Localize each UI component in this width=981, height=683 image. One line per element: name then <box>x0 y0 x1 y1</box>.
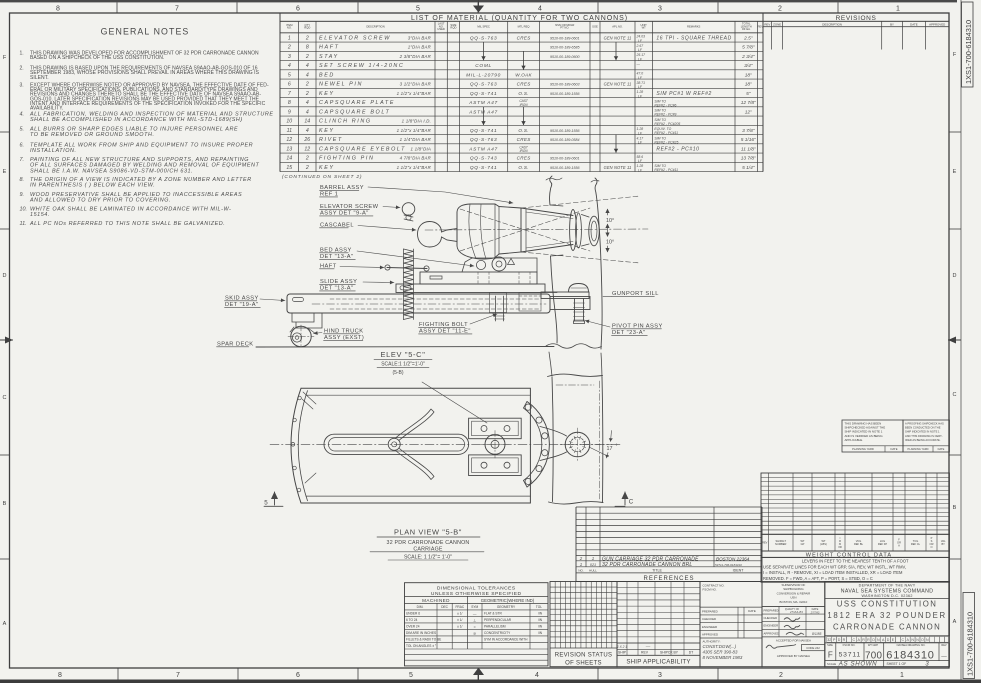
list of material ditto arrows <box>483 42 485 60</box>
svg-text:HAFT: HAFT <box>319 45 339 51</box>
svg-text:4: 4 <box>306 128 309 134</box>
svg-text:FRAC: FRAC <box>455 605 464 609</box>
svg-text:SOE: SOE <box>592 24 598 28</box>
svg-text:1: 1 <box>288 35 291 41</box>
svg-text:CRES: CRES <box>517 137 532 142</box>
gunport sill structure <box>541 292 589 299</box>
svg-text:32: 32 <box>827 638 831 642</box>
svg-text:9510-00-189-6585: 9510-00-189-6585 <box>550 46 580 50</box>
svg-text:PREPARED: PREPARED <box>764 609 779 613</box>
svg-text:AND THIS DRAWING IS CERT-: AND THIS DRAWING IS CERT- <box>905 434 943 438</box>
svg-text:REV: REV <box>764 23 770 27</box>
svg-text:53711: 53711 <box>839 652 861 659</box>
svg-text:REF#2 - PC#25: REF#2 - PC#25 <box>654 140 678 144</box>
svg-text:STAY: STAY <box>319 54 339 60</box>
fighting bolt <box>490 293 507 313</box>
svg-text:CRES: CRES <box>517 35 532 40</box>
svg-text:18": 18" <box>745 82 752 88</box>
svg-text:DIMENSIONAL TOLERANCES: DIMENSIONAL TOLERANCES <box>437 585 516 591</box>
svg-text:13 7/8": 13 7/8" <box>741 156 756 162</box>
hind truck bracket <box>292 313 322 328</box>
svg-text:N: N <box>916 638 919 642</box>
svg-text:AND ALLOWED TO DRY PRIOR TO CO: AND ALLOWED TO DRY PRIOR TO COVERING. <box>29 198 171 204</box>
svg-text:1 1/2"x 1/4"BAR: 1 1/2"x 1/4"BAR <box>397 91 432 96</box>
svg-text:UNDER 6: UNDER 6 <box>406 612 420 616</box>
svg-text:BOSTON, MA. 02210: BOSTON, MA. 02210 <box>780 600 808 604</box>
svg-text:AUTHORITY:: AUTHORITY: <box>703 640 721 644</box>
svg-text:2: 2 <box>579 556 583 561</box>
pivot arm <box>540 427 567 461</box>
svg-text:C: C <box>629 499 634 506</box>
svg-text:18": 18" <box>745 72 752 78</box>
svg-text:1XS1-700-6184310: 1XS1-700-6184310 <box>966 612 975 676</box>
svg-text:MIL-L-20790: MIL-L-20790 <box>466 72 501 78</box>
svg-text:DEC: DEC <box>441 605 448 609</box>
svg-text:DIM.: DIM. <box>417 605 424 609</box>
svg-text:2 3/4": 2 3/4" <box>741 54 755 60</box>
svg-text:8: 8 <box>306 45 309 51</box>
svg-text:REMOVED. F = FWD, A = AFT, P =: REMOVED. F = FWD, A = AFT, P = PORT, S =… <box>763 576 873 581</box>
svg-text:N: N <box>877 638 880 642</box>
svg-text:PLAN VIEW "5-B": PLAN VIEW "5-B" <box>394 528 462 537</box>
svg-text:SYM IN ACCORDANCE WITH: SYM IN ACCORDANCE WITH <box>484 638 528 642</box>
svg-text:E: E <box>3 169 7 175</box>
svg-text:OF EA.: OF EA. <box>742 27 751 31</box>
svg-text:9510-00-189-0603: 9510-00-189-0603 <box>550 83 580 87</box>
svg-text:REV: REV <box>941 643 947 647</box>
svg-text:MIL SPEC: MIL SPEC <box>477 24 490 28</box>
svg-text:4: 4 <box>288 63 291 69</box>
svg-text:2: 2 <box>305 165 309 171</box>
svg-text:FSCM NO.: FSCM NO. <box>843 643 856 647</box>
svg-text:4: 4 <box>306 109 309 115</box>
trunnion and capsquare <box>476 260 485 269</box>
svg-text:GEN NOTE 11: GEN NOTE 11 <box>604 35 632 40</box>
svg-text:5 7/8": 5 7/8" <box>742 45 755 51</box>
svg-text:PARALLELISM: PARALLELISM <box>484 625 506 629</box>
hull elevation outer <box>550 176 552 205</box>
plan sill dash-dot lines <box>599 381 601 499</box>
svg-text:9: 9 <box>288 109 291 115</box>
svg-text:2 3/8"DIA BAR: 2 3/8"DIA BAR <box>399 54 432 59</box>
svg-text:—: — <box>645 644 651 649</box>
svg-text:1 1/8"DIA I.D.: 1 1/8"DIA I.D. <box>402 119 431 124</box>
svg-text:BEEN CONDUCTED ON THE: BEEN CONDUCTED ON THE <box>905 426 941 430</box>
left centering arrow <box>0 339 13 341</box>
svg-text:CLINCH RING: CLINCH RING <box>319 119 372 125</box>
svg-text:7: 7 <box>176 672 180 679</box>
svg-text:/IN: /IN <box>538 618 543 622</box>
elevation view group <box>217 176 663 378</box>
svg-text:REF FP: REF FP <box>878 542 887 546</box>
svg-text:INSTALLATION.: INSTALLATION. <box>30 148 77 154</box>
svg-text:15: 15 <box>286 165 292 171</box>
svg-text:DATE: DATE <box>938 447 945 451</box>
svg-text:SHIPCK BY: SHIPCK BY <box>660 651 679 655</box>
svg-text:—: — <box>473 612 477 616</box>
svg-text:DESCRIPTION: DESCRIPTION <box>366 24 384 28</box>
svg-text:°: ° <box>616 444 618 450</box>
svg-text:A PROOFING SHIPCHECK HAS: A PROOFING SHIPCHECK HAS <box>905 421 944 425</box>
svg-text:SCALE: 1 1/2"= 1'-0": SCALE: 1 1/2"= 1'-0" <box>404 554 452 560</box>
svg-text:C: C <box>852 638 855 642</box>
svg-text:N: N <box>926 638 929 642</box>
hull gunport edges <box>550 205 563 206</box>
svg-text:—: — <box>941 653 947 659</box>
svg-text:1 1/2"x 1/4"BAR: 1 1/2"x 1/4"BAR <box>397 165 432 170</box>
svg-text:CRES: CRES <box>517 82 532 87</box>
svg-text:ACCEPTED FOR NAVSEA: ACCEPTED FOR NAVSEA <box>776 638 811 642</box>
svg-text:=: = <box>474 625 476 629</box>
capsquare top <box>469 418 522 439</box>
svg-text:C: C <box>953 392 957 398</box>
svg-text:KEY: KEY <box>319 91 335 97</box>
svg-text:1 X 2 1: 1 X 2 1 <box>617 645 627 649</box>
right zone ticks <box>949 131 961 133</box>
svg-text:4.: 4. <box>20 111 25 117</box>
svg-text:ASTM A47: ASTM A47 <box>468 100 498 106</box>
svg-text:NUMBER: NUMBER <box>775 542 786 546</box>
svg-text:BOSTON 22364: BOSTON 22364 <box>716 556 750 561</box>
svg-text:CONCENTRICITY: CONCENTRICITY <box>484 631 511 635</box>
svg-text:2: 2 <box>779 672 783 679</box>
svg-text:R: R <box>843 638 846 642</box>
svg-text:TITLE: TITLE <box>652 569 662 573</box>
svg-text:ELEV "5-C": ELEV "5-C" <box>380 350 425 359</box>
svg-text:DESCRIPTION: DESCRIPTION <box>822 23 842 27</box>
svg-text:D: D <box>838 638 841 642</box>
svg-text:FILLETS & RADII TO BE: FILLETS & RADII TO BE <box>406 638 441 642</box>
svg-text:B: B <box>953 505 957 511</box>
scale sheet row <box>825 660 950 662</box>
svg-text:PT NO.: PT NO. <box>560 26 569 30</box>
pivot pin <box>574 299 576 322</box>
svg-text:D: D <box>887 638 890 642</box>
svg-text:TOL: TOL <box>536 605 542 609</box>
general notes text <box>20 50 274 227</box>
svg-text:± 1/: ± 1/ <box>457 618 462 622</box>
svg-text:GEOMETRY: GEOMETRY <box>497 605 516 609</box>
svg-text:9.: 9. <box>20 192 25 198</box>
plan center slot <box>324 434 469 454</box>
svg-text:2: 2 <box>287 45 291 51</box>
code box <box>801 645 824 651</box>
svg-text:3: 3 <box>288 54 291 60</box>
section marker C <box>624 492 626 505</box>
svg-text:16 TPI - SQUARE THREAD: 16 TPI - SQUARE THREAD <box>656 35 731 41</box>
haft handle <box>387 268 427 269</box>
svg-text:O: O <box>872 638 875 642</box>
svg-text:CAPSQUARE EYEBOLT: CAPSQUARE EYEBOLT <box>319 146 406 152</box>
svg-text:CRES: CRES <box>517 156 532 161</box>
svg-text:APPROVED: APPROVED <box>929 23 945 27</box>
svg-text:TO BE REMOVED OR GROUND SMOOTH: TO BE REMOVED OR GROUND SMOOTH. <box>30 132 155 138</box>
svg-text:WT: WT <box>642 26 647 30</box>
svg-text:3"DIA BAR: 3"DIA BAR <box>408 35 432 40</box>
svg-text:REF#2 - PC#10: REF#2 - PC#10 <box>656 146 699 152</box>
svg-text:QQ-S-741: QQ-S-741 <box>470 165 497 171</box>
svg-text:7.: 7. <box>20 157 25 163</box>
svg-text:11.: 11. <box>20 221 27 227</box>
svg-text:C: C <box>3 395 7 401</box>
svg-text:IDENT: IDENT <box>733 569 745 573</box>
svg-text:FSCM NO.: FSCM NO. <box>703 588 717 592</box>
svg-text:ZONE: ZONE <box>773 23 781 27</box>
elevator screw threaded column <box>404 249 414 320</box>
svg-text:E: E <box>953 169 957 175</box>
svg-text:O.S.: O.S. <box>518 128 528 133</box>
svg-text:QQ-S-763: QQ-S-763 <box>470 82 497 88</box>
svg-text:CONST:DGW(...): CONST:DGW(...) <box>703 644 737 649</box>
svg-text:DT: DT <box>689 651 694 655</box>
svg-text:5: 5 <box>416 5 420 12</box>
svg-text:DEPARTMENT OF THE NAVY: DEPARTMENT OF THE NAVY <box>859 583 916 587</box>
plan sill plank right edge <box>601 378 604 503</box>
svg-text:8: 8 <box>56 5 60 12</box>
skid right extension <box>550 297 590 310</box>
svg-text:DATE: DATE <box>891 447 898 451</box>
svg-text:FLAT & STR: FLAT & STR <box>484 612 502 616</box>
svg-text:15154.: 15154. <box>30 212 50 218</box>
plan bow bolts <box>298 396 302 400</box>
svg-text:ENGINEER: ENGINEER <box>764 624 779 628</box>
svg-text:O.S.: O.S. <box>518 91 528 96</box>
svg-text:LEVERS IN FEET TO THE NEAREST: LEVERS IN FEET TO THE NEAREST TENTH OF A… <box>802 559 909 564</box>
svg-text:6.: 6. <box>20 142 25 148</box>
svg-text:KEY: KEY <box>319 165 335 171</box>
svg-text:2: 2 <box>305 35 309 41</box>
svg-text:SIZE: SIZE <box>827 643 833 647</box>
svg-text:14: 14 <box>286 156 292 162</box>
weight control banner <box>761 551 949 557</box>
hull elevation inner <box>595 178 602 349</box>
svg-text:NEWEL PIN: NEWEL PIN <box>319 82 363 88</box>
svg-text:26: 26 <box>303 137 310 143</box>
svg-text:9510-00-189-0601: 9510-00-189-0601 <box>550 36 580 40</box>
svg-text:SEPTEMBER 1983, WHOSE PROVISIO: SEPTEMBER 1983, WHOSE PROVISIONS SHALL P… <box>30 70 260 76</box>
top zone band dividers <box>116 2 118 13</box>
top-right drawing number stamp <box>962 2 974 87</box>
svg-text:SHALL BE ACCOMPLISHED IN ACCOR: SHALL BE ACCOMPLISHED IN ACCORDANCE WITH… <box>30 117 243 123</box>
svg-text:TOL ON ANGLES ± °: TOL ON ANGLES ± ° <box>406 644 437 648</box>
svg-text:1: 1 <box>896 5 900 12</box>
svg-text:ELEVATOR SCREW: ELEVATOR SCREW <box>319 35 391 41</box>
plan sill plank bottom wave <box>549 502 604 504</box>
levers note text <box>761 557 949 582</box>
svg-text:QQ-S-763: QQ-S-763 <box>470 35 497 41</box>
hull below gunport <box>549 352 552 376</box>
svg-text:CODE 242: CODE 242 <box>806 646 820 650</box>
plan centerline <box>270 443 622 445</box>
svg-text:WASHINGTON D.C. 02362: WASHINGTON D.C. 02362 <box>862 594 913 598</box>
svg-text:REF#2 - PC#11: REF#2 - PC#11 <box>654 168 678 172</box>
svg-text:ALL PC NOs REFERRED TO THIS N: ALL PC NOs REFERRED TO THIS NOTE SHALL B… <box>29 221 225 227</box>
bottom page edge strip <box>0 680 981 683</box>
hind truck wheel <box>291 326 311 346</box>
contract and approvals block <box>700 582 762 667</box>
size fscm row headers <box>825 642 950 644</box>
svg-text:PREPARED: PREPARED <box>702 609 718 613</box>
svg-text:SILENT.: SILENT. <box>30 75 49 81</box>
weight control data block <box>761 473 949 582</box>
svg-text:3 7/8": 3 7/8" <box>742 128 755 134</box>
svg-text:CAPSQUARE BOLT: CAPSQUARE BOLT <box>319 109 390 115</box>
svg-text:NAVSEA DRAWING NO.: NAVSEA DRAWING NO. <box>897 643 926 647</box>
svg-text:REF CL: REF CL <box>911 542 921 546</box>
svg-text:6184310: 6184310 <box>886 650 934 662</box>
svg-text:SHALL BE I.A.W. NAVSEA S9086-V: SHALL BE I.A.W. NAVSEA S9086-VD-STM-000/… <box>30 168 193 174</box>
svg-text:N: N <box>911 638 914 642</box>
svg-text:QQ-S-743: QQ-S-743 <box>470 156 497 162</box>
svg-text:9510-00-189-0584: 9510-00-189-0584 <box>550 138 580 142</box>
svg-text:9510-00-189-1556: 9510-00-189-1556 <box>550 92 580 96</box>
svg-text:GEOMETRIC(WHERE IND): GEOMETRIC(WHERE IND) <box>481 598 535 603</box>
svg-text:REVISION STATUS: REVISION STATUS <box>555 653 613 659</box>
svg-text:NO.: NO. <box>287 26 292 30</box>
svg-text:9510-00-189-1556: 9510-00-189-1556 <box>550 129 580 133</box>
weight control header row <box>761 534 949 551</box>
bottom zone band dividers <box>117 668 119 680</box>
svg-text:12": 12" <box>745 109 752 115</box>
plan sill plank left edge <box>552 377 553 502</box>
svg-text:HULL: HULL <box>589 568 597 572</box>
svg-text:4305 SER 390-83: 4305 SER 390-83 <box>703 650 738 655</box>
svg-text:RIVET: RIVET <box>319 137 343 143</box>
svg-text:12: 12 <box>286 137 292 143</box>
svg-text:D: D <box>3 273 7 279</box>
svg-text:1 1/8"DIA: 1 1/8"DIA <box>411 146 431 151</box>
svg-text:4: 4 <box>535 672 539 679</box>
svg-text:53711-706-6184310: 53711-706-6184310 <box>715 563 742 567</box>
svg-text:3.: 3. <box>20 83 24 89</box>
svg-text:QQ-S-741: QQ-S-741 <box>470 128 497 134</box>
plan sill plank top wave <box>548 374 603 376</box>
svg-text:—: — <box>636 62 641 66</box>
svg-text:WHITE OAK SHALL BE LAMINATED I: WHITE OAK SHALL BE LAMINATED IN ACCORDAN… <box>30 206 231 212</box>
svg-text:(LBS): (LBS) <box>820 542 827 546</box>
svg-text:1 1/4"DIA BAR: 1 1/4"DIA BAR <box>400 137 432 142</box>
right centering arrow <box>948 339 961 341</box>
slide tier <box>396 284 545 293</box>
svg-text:11 1/8": 11 1/8" <box>741 146 756 152</box>
svg-text:IRON: IRON <box>520 149 529 153</box>
svg-text:XR: XR <box>838 545 842 549</box>
svg-text:A: A <box>3 621 7 627</box>
svg-text:ASTM A47: ASTM A47 <box>468 146 498 152</box>
svg-text:CARRONADE CANNON: CARRONADE CANNON <box>833 623 941 632</box>
svg-text:APL NO.: APL NO. <box>612 24 623 28</box>
svg-text:11: 11 <box>287 128 292 134</box>
muzzle face <box>582 215 590 247</box>
svg-text:REF#2 - PC#6: REF#2 - PC#6 <box>654 103 676 107</box>
svg-text:PLANNING YARD: PLANNING YARD <box>852 447 874 451</box>
svg-text:4 7/8"DIA BAR: 4 7/8"DIA BAR <box>400 156 432 161</box>
svg-text:2: 2 <box>305 54 309 60</box>
17 degree dimension <box>589 447 609 457</box>
list of material table <box>280 13 763 180</box>
svg-text:32 PDR CARRONADE CANNON: 32 PDR CARRONADE CANNON <box>387 540 470 546</box>
svg-text:REV: REV <box>757 24 763 28</box>
svg-text:KEY: KEY <box>319 128 335 134</box>
svg-text:D: D <box>953 273 957 279</box>
svg-text:(5-B): (5-B) <box>392 370 403 376</box>
svg-text:QQ-S-763: QQ-S-763 <box>470 137 497 143</box>
hull break marks <box>546 178 562 180</box>
shipcheck certification box 2 <box>903 420 949 452</box>
svg-text:SYM: SYM <box>471 605 478 609</box>
svg-text:LIST OF MATERIAL (QUANTITY FOR: LIST OF MATERIAL (QUANTITY FOR TWO CANNO… <box>411 15 628 22</box>
svg-text:UNLESS OTHERWISE SPECIFIED: UNLESS OTHERWISE SPECIFIED <box>431 591 522 597</box>
elevator screw ball <box>402 203 415 216</box>
svg-text:1: 1 <box>900 672 904 679</box>
svg-text:BY: BY <box>890 23 894 27</box>
svg-text:/IN: /IN <box>538 631 543 635</box>
svg-text:4: 4 <box>538 5 542 12</box>
svg-text:5 1/16": 5 1/16" <box>741 137 756 143</box>
svg-text:2.5": 2.5" <box>743 35 753 41</box>
svg-text:SET SCREW 1/4-20NC: SET SCREW 1/4-20NC <box>319 63 404 69</box>
svg-text:AS SHOWN: AS SHOWN <box>838 661 878 668</box>
svg-text:QQ-S-741: QQ-S-741 <box>470 91 497 97</box>
svg-text:BASED ON A SHIPCHECK OF THE US: BASED ON A SHIPCHECK OF THE USS CONSTITU… <box>30 55 164 61</box>
svg-text:GEN NOTE 11: GEN NOTE 11 <box>604 165 632 170</box>
svg-text:W.OAK: W.OAK <box>515 72 532 77</box>
svg-text:IFIED AS BEING ACCURATE.: IFIED AS BEING ACCURATE. <box>905 438 941 442</box>
svg-text:4: 4 <box>306 100 309 106</box>
svg-text:8: 8 <box>288 100 291 106</box>
svg-text:± 1/: ± 1/ <box>457 612 462 616</box>
C bracket bolts <box>525 404 531 410</box>
svg-text:SCALE:1 1/2"=1'-0": SCALE:1 1/2"=1'-0" <box>381 361 425 367</box>
svg-text:C: C <box>902 638 905 642</box>
svg-text:3: 3 <box>658 672 662 679</box>
barrel breech <box>457 204 521 259</box>
svg-text:5": 5" <box>746 91 751 97</box>
references block <box>576 507 762 582</box>
svg-text:REMARKS: REMARKS <box>687 24 700 28</box>
top page edge strip <box>0 0 957 2</box>
svg-text:PLANNING YARD: PLANNING YARD <box>908 447 929 451</box>
svg-text:9510-00-189-0601: 9510-00-189-0601 <box>550 157 580 161</box>
svg-text:4: 4 <box>306 72 309 78</box>
svg-text:SHIP APPLICABILITY: SHIP APPLICABILITY <box>626 659 690 666</box>
plan slide outline <box>301 388 530 503</box>
svg-text:APPROVED: APPROVED <box>764 631 780 635</box>
stamped letter boxes <box>825 635 950 637</box>
svg-text:5.: 5. <box>20 126 25 132</box>
svg-text:10: 10 <box>286 119 292 125</box>
bottom-right drawing number stamp <box>963 593 975 679</box>
svg-text:CAPSQUARE PLATE: CAPSQUARE PLATE <box>319 100 395 106</box>
wishbone fork <box>388 438 400 450</box>
svg-text:3/4": 3/4" <box>744 63 753 69</box>
muzzle rings <box>570 210 577 251</box>
svg-text:REV: REV <box>641 651 649 655</box>
svg-text:1.: 1. <box>20 50 24 56</box>
svg-text:/IN: /IN <box>538 625 543 629</box>
svg-text:NO.: NO. <box>578 568 584 572</box>
svg-text:USE SEPARATE LINES FOR EACH WT: USE SEPARATE LINES FOR EACH WT GRP, S/A,… <box>763 564 906 569</box>
svg-text:SIM PC#1 W REF#2: SIM PC#1 W REF#2 <box>656 91 711 97</box>
svg-text:9510-00-189-0600: 9510-00-189-0600 <box>550 55 580 59</box>
supervisor of shipbuilding block <box>762 582 825 667</box>
svg-text:I = INSTALL, R - REMOVE, XI =: I = INSTALL, R - REMOVE, XI = LOAD ITEM … <box>763 570 903 575</box>
svg-text:GP: GP <box>801 542 805 546</box>
svg-text:USED: USED <box>437 27 445 31</box>
svg-text:OVER 24: OVER 24 <box>406 625 420 629</box>
svg-text:A: A <box>953 619 957 625</box>
svg-text:17: 17 <box>607 446 613 452</box>
